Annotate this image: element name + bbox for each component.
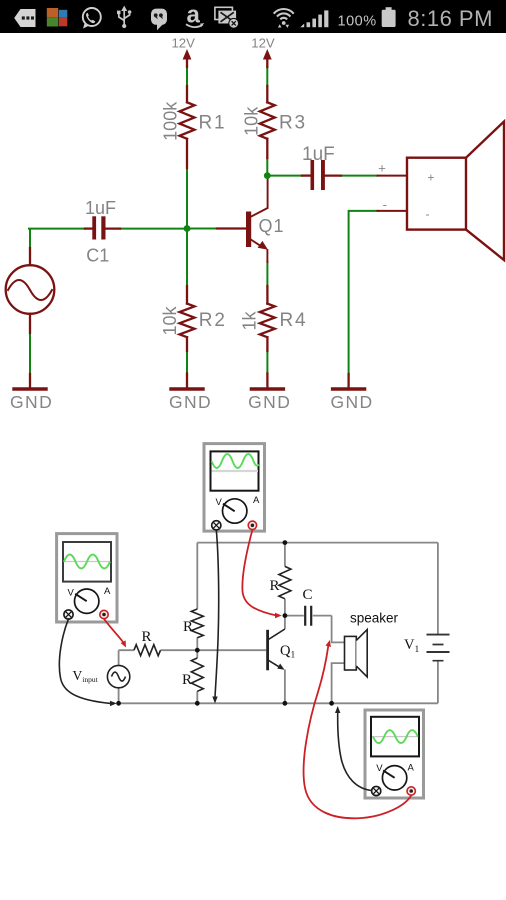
svg-text:R2: R2 [199, 310, 227, 331]
svg-text:R: R [141, 629, 151, 645]
svg-text:GND: GND [330, 392, 373, 412]
svg-text:V1: V1 [404, 637, 419, 655]
svg-text:1uF: 1uF [85, 198, 116, 218]
svg-text:12V: 12V [171, 36, 195, 51]
svg-text:GND: GND [169, 392, 212, 412]
svg-text:R: R [183, 619, 193, 635]
svg-text:R: R [269, 578, 279, 594]
svg-text:8:16 PM: 8:16 PM [408, 6, 493, 31]
svg-text:-: - [383, 197, 387, 212]
svg-text:Q1: Q1 [280, 643, 295, 661]
svg-text:GND: GND [248, 392, 291, 412]
svg-text:1k: 1k [239, 310, 259, 330]
svg-text:C1: C1 [86, 246, 109, 266]
svg-text:R: R [182, 672, 192, 688]
svg-text:R3: R3 [279, 113, 307, 134]
svg-text:A: A [408, 763, 415, 774]
svg-text:V: V [68, 588, 75, 599]
svg-text:+: + [378, 161, 386, 176]
svg-text:10k: 10k [241, 106, 261, 136]
svg-text:speaker: speaker [350, 611, 399, 626]
svg-text:12V: 12V [251, 36, 275, 51]
svg-text:10k: 10k [160, 305, 180, 335]
svg-text:V: V [376, 763, 383, 774]
svg-text:A: A [104, 586, 111, 597]
svg-text:100k: 100k [161, 101, 181, 141]
svg-text:+: + [427, 171, 434, 185]
svg-text:C: C [302, 587, 312, 603]
svg-text:R1: R1 [199, 113, 227, 134]
svg-text:1uF: 1uF [302, 144, 335, 165]
svg-text:R4: R4 [280, 310, 308, 331]
svg-text:A: A [253, 495, 260, 506]
svg-text:Vinput: Vinput [73, 668, 99, 684]
svg-text:GND: GND [10, 392, 53, 412]
svg-text:-: - [426, 207, 430, 221]
svg-text:100%: 100% [338, 13, 377, 29]
svg-text:Q1: Q1 [259, 216, 285, 236]
svg-text:a: a [187, 2, 201, 29]
svg-text:V: V [216, 497, 223, 508]
